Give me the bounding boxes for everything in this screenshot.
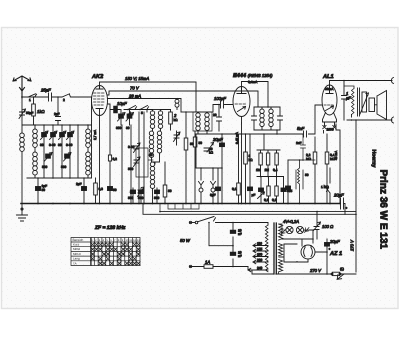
wire 270V bottom — [252, 268, 356, 275]
svg-text:2: 2 — [63, 98, 65, 102]
transformer tap 110 — [253, 242, 268, 248]
capacitor 50 x110 — [108, 187, 117, 193]
tube AL1 base — [323, 113, 337, 132]
svg-text:nF: nF — [238, 254, 242, 258]
trimmer C10 — [116, 110, 125, 131]
transformer secondary top — [279, 224, 283, 240]
svg-text:nF: nF — [238, 232, 242, 236]
svg-text:28 mA: 28 mA — [128, 94, 141, 99]
table waveband grid — [71, 238, 140, 266]
svg-text:5: 5 — [291, 189, 293, 193]
rectifier AZ1 — [301, 245, 315, 262]
wire L3 tops — [153, 109, 161, 111]
wire AK2 cathode down — [93, 116, 100, 204]
capacitor 500c — [154, 188, 160, 204]
fuse 1A — [189, 260, 248, 269]
capacitor 500b — [138, 188, 144, 204]
svg-text:2µF: 2µF — [76, 182, 82, 186]
trimmer C3 — [40, 125, 48, 178]
capacitor C20 — [248, 134, 256, 204]
coil T1a — [196, 112, 200, 131]
connector top — [391, 78, 393, 84]
svg-text:0,4: 0,4 — [273, 168, 278, 172]
capacitor 1uF — [342, 81, 352, 121]
potentiometer 10k — [196, 134, 214, 168]
coil L4b — [157, 131, 161, 162]
svg-text:ZF = 128 kHz: ZF = 128 kHz — [94, 225, 126, 231]
svg-text:5nF: 5nF — [297, 126, 305, 131]
svg-text:500: 500 — [138, 196, 144, 200]
wire lamps to heater — [310, 230, 314, 243]
svg-text:kΩ: kΩ — [209, 151, 214, 155]
wire E444 cathode — [235, 123, 242, 204]
wire AL1 anode — [330, 80, 393, 86]
wire y150 avc — [257, 133, 280, 150]
svg-text:3-30: 3-30 — [66, 143, 73, 147]
svg-text:10µF: 10µF — [117, 101, 127, 106]
resistor 50b — [193, 131, 202, 204]
resistor R8 — [232, 134, 240, 204]
resistor 1k — [32, 97, 46, 125]
capacitor 2uF top — [54, 97, 61, 125]
svg-text:500: 500 — [61, 165, 67, 169]
coil L5 — [150, 162, 154, 204]
svg-text:100µF: 100µF — [214, 96, 226, 101]
svg-text:300: 300 — [116, 126, 122, 130]
svg-text:110: 110 — [257, 242, 262, 246]
wire y168 — [196, 167, 223, 169]
coil antenna — [20, 133, 25, 151]
trimmer C5 — [58, 125, 66, 178]
IF transformer T1 top bar — [193, 111, 212, 113]
svg-text:Bereich: Bereich — [73, 238, 84, 242]
wire E444 anode top — [242, 82, 269, 108]
svg-text:3-30: 3-30 — [49, 143, 56, 147]
tube E444 — [233, 73, 273, 123]
wire AL1 cathode down — [334, 124, 340, 204]
transformer tap 240 — [248, 266, 268, 272]
wire grid E444 — [213, 104, 233, 112]
svg-text:240: 240 — [257, 266, 263, 270]
capacitor 10nF b — [230, 251, 241, 259]
svg-text:+: + — [346, 206, 348, 210]
output transformer winding — [344, 86, 354, 117]
svg-text:µF: µF — [346, 96, 351, 101]
coil L1a — [33, 125, 38, 152]
coil L3a — [150, 110, 154, 132]
wire T1 down — [198, 131, 207, 134]
wire x78 — [77, 125, 79, 178]
trimmer C13 — [128, 143, 140, 153]
svg-text:AZ 1: AZ 1 — [329, 251, 342, 257]
wire mains top vert — [232, 222, 234, 268]
wire antenna horizontal — [21, 95, 91, 98]
svg-text:TA: TA — [73, 261, 77, 265]
capacitor 10nF a — [230, 229, 241, 237]
trimmer C4 — [49, 125, 57, 178]
svg-text:50: 50 — [199, 141, 203, 145]
resistor 0,4M — [273, 150, 278, 177]
wire speaker bottom — [347, 119, 392, 121]
svg-text:30: 30 — [58, 143, 62, 147]
svg-text:20µF: 20µF — [212, 137, 223, 142]
svg-text:0,4mA: 0,4mA — [248, 80, 258, 84]
transformer tap 150 — [253, 253, 268, 259]
svg-text:25µF: 25µF — [40, 88, 51, 93]
mains switch — [195, 217, 233, 224]
IF T2 bottom bar — [254, 129, 280, 134]
transformer secondary mid — [279, 244, 283, 256]
svg-text:2µF: 2µF — [54, 112, 60, 116]
sub bus y213.5 — [143, 204, 357, 216]
coil L3b — [158, 110, 162, 132]
capacitor 8uF — [210, 168, 221, 204]
wire cap midpoint — [208, 222, 234, 247]
output transformer core — [358, 88, 360, 116]
svg-text:20µF: 20µF — [333, 193, 344, 198]
svg-text:1: 1 — [29, 98, 31, 102]
coil L2b — [86, 152, 91, 178]
resistor 50 — [184, 112, 194, 204]
capacitor 5nF — [297, 126, 307, 137]
svg-text:50: 50 — [130, 190, 134, 194]
capacitor C22 — [258, 177, 265, 204]
wire AZ1 loop — [279, 244, 327, 262]
trimmer C14 — [128, 157, 140, 171]
ground symbol — [17, 204, 28, 222]
rail 28mA — [108, 94, 182, 113]
capacitor T2 left — [252, 107, 257, 130]
coil L1b — [33, 152, 38, 178]
trimmer C8 — [61, 153, 71, 170]
svg-text:45 mA: 45 mA — [334, 150, 338, 160]
capacitor 10uF — [114, 101, 127, 113]
resistor 2,2M — [306, 150, 317, 204]
wire y176.5 — [257, 176, 284, 178]
label AZ1 — [329, 251, 342, 257]
connector bottom — [391, 117, 393, 123]
wire AZ1 anodes — [282, 238, 314, 246]
svg-text:70 V: 70 V — [130, 86, 140, 91]
svg-text:Mittel: Mittel — [73, 247, 81, 251]
label Prinz 36 W E 131 — [378, 170, 389, 250]
capacitor T2 right — [278, 107, 283, 130]
svg-text:1nF: 1nF — [296, 141, 302, 145]
svg-text:270 V: 270 V — [309, 268, 322, 273]
svg-text:500: 500 — [42, 165, 48, 169]
resistor 2k — [169, 110, 178, 131]
coil T2a — [260, 107, 264, 130]
resistor 0,2 x110 — [108, 110, 117, 204]
switch S1 — [28, 94, 37, 102]
capacitor 20uF AZ1 — [325, 239, 341, 272]
jack TA1 — [199, 168, 204, 204]
resistor R12 — [264, 177, 270, 204]
switch S4 — [140, 106, 149, 116]
transformer secondary bottom — [279, 260, 283, 275]
svg-text:50: 50 — [168, 189, 172, 193]
wire y134 coupling — [196, 105, 322, 135]
resistor 1M — [256, 150, 262, 177]
label 50W — [180, 238, 191, 243]
IF T1 bottom bar — [193, 112, 212, 131]
svg-text:0,2: 0,2 — [264, 198, 269, 202]
svg-text:1 MΩ: 1 MΩ — [321, 185, 329, 189]
transformer tap 220 — [253, 258, 268, 264]
fuse F2 — [331, 267, 344, 280]
switch WK — [321, 168, 330, 204]
svg-text:50: 50 — [42, 188, 46, 192]
transformer primary top wire — [233, 223, 268, 226]
wire y160 link — [288, 159, 304, 161]
svg-text:1M: 1M — [256, 168, 261, 172]
capacitor 50pF — [19, 109, 33, 119]
svg-text:1kΩ: 1kΩ — [37, 109, 45, 114]
transformer core — [274, 223, 276, 274]
resistor field — [296, 160, 309, 204]
table row labels — [73, 243, 82, 266]
wire AK2 right y109.5 — [108, 104, 153, 110]
svg-text:Hoerny: Hoerny — [371, 150, 377, 168]
svg-text:1A: 1A — [205, 260, 210, 265]
capacitor C23 — [281, 177, 291, 204]
rail 150V — [100, 76, 197, 112]
svg-text:2M: 2M — [265, 168, 270, 172]
capacitor 5nF grid — [314, 137, 316, 150]
capacitor 20pF — [213, 105, 222, 132]
svg-text:kΩ: kΩ — [174, 118, 179, 122]
label Hoerny — [371, 150, 377, 168]
svg-text:µF: µF — [252, 193, 256, 197]
wire y112 osc top — [181, 111, 196, 113]
trimmer C12 — [174, 131, 181, 145]
svg-text:Mitt.m: Mitt.m — [73, 252, 82, 256]
ground bus — [21, 203, 341, 205]
svg-text:100 Ω: 100 Ω — [322, 224, 334, 229]
coil T2b — [269, 107, 273, 130]
svg-text:50: 50 — [113, 188, 117, 192]
switch S3 — [128, 106, 137, 116]
coil T1b — [205, 112, 209, 131]
label ZF caption — [94, 225, 126, 231]
svg-text:3-30: 3-30 — [128, 145, 135, 149]
jack TA2 — [211, 168, 216, 204]
svg-text:AK2: AK2 — [91, 74, 104, 80]
sub bar y209 — [168, 204, 199, 210]
transformer TR1 primary — [265, 225, 268, 272]
capacitor 50 bottom — [36, 178, 48, 204]
svg-text:500: 500 — [154, 196, 160, 200]
resistor R5 — [163, 162, 172, 204]
lamp LP1 — [286, 226, 293, 233]
wire x222 down — [221, 168, 223, 204]
svg-text:MΩ: MΩ — [306, 157, 312, 161]
svg-text:1µF: 1µF — [42, 184, 48, 188]
svg-text:20µF: 20µF — [329, 239, 340, 244]
tube AL1 — [322, 74, 337, 115]
capacitor 2uF bottom — [76, 178, 87, 204]
svg-text:0,1: 0,1 — [232, 187, 237, 191]
capacitor 25uF — [40, 88, 52, 102]
svg-text:0,2: 0,2 — [272, 198, 277, 202]
svg-text:50 W: 50 W — [180, 238, 191, 243]
svg-text:150 V; 15mA: 150 V; 15mA — [125, 76, 149, 81]
svg-text:4V≈0,2A: 4V≈0,2A — [283, 219, 299, 224]
wire antenna down — [21, 85, 23, 204]
resistor 0,4M — [325, 134, 335, 204]
trimmer C11 — [126, 110, 134, 131]
capacitor 20uF mid — [212, 134, 225, 168]
capacitor 500a — [128, 188, 136, 204]
capacitor 100pF — [214, 96, 226, 108]
resistor 30k — [244, 134, 253, 204]
resistor 0,3M — [94, 178, 103, 204]
wire horizontal y125 — [22, 124, 92, 126]
wire osc mid — [144, 110, 171, 204]
resistor R13 — [272, 177, 278, 204]
svg-text:270 V: 270 V — [350, 239, 355, 252]
resistor 2M — [265, 150, 270, 177]
wire heater AL1 — [316, 131, 323, 240]
svg-text:30: 30 — [40, 143, 44, 147]
svg-text:20: 20 — [213, 113, 217, 117]
svg-text:Lang: Lang — [73, 257, 80, 261]
rail 70V — [108, 86, 259, 108]
svg-text:125: 125 — [257, 247, 263, 251]
speaker matching winding — [360, 92, 369, 114]
potentiometer 100 — [314, 222, 335, 231]
IF transformer T2 top bar — [254, 106, 280, 108]
coil L6 — [175, 99, 179, 110]
wire stub coil bottoms — [27, 97, 92, 178]
svg-text:0,2: 0,2 — [113, 157, 118, 161]
wire horizontal y178 — [27, 177, 92, 179]
table header labels — [73, 238, 141, 242]
coil L2a — [86, 125, 91, 152]
svg-text:8µF: 8µF — [210, 193, 216, 197]
transformer tap 125 — [253, 247, 268, 253]
label 270V vertical — [350, 239, 355, 252]
capacitor 1nF — [296, 134, 315, 160]
speaker — [369, 91, 387, 120]
lamp arrows — [281, 224, 310, 235]
svg-text:2,7 mA: 2,7 mA — [93, 129, 97, 140]
lamp LP2 — [296, 226, 303, 233]
svg-text:50: 50 — [305, 173, 309, 177]
label 4V — [283, 219, 299, 224]
svg-text:500: 500 — [128, 196, 134, 200]
svg-text:500: 500 — [128, 167, 134, 171]
capacitor 20uF bus — [333, 193, 348, 215]
wire HT down right — [355, 120, 357, 272]
coil L4a — [149, 131, 153, 162]
svg-text:AL1: AL1 — [322, 74, 334, 80]
svg-text:220: 220 — [257, 258, 263, 262]
svg-text:Kurz: Kurz — [73, 243, 80, 247]
antenna — [13, 76, 31, 98]
svg-text:30: 30 — [126, 126, 130, 130]
svg-text:(1): (1) — [340, 267, 344, 271]
padder network box — [136, 148, 153, 177]
svg-text:1000: 1000 — [327, 128, 334, 132]
tube AK2 — [91, 74, 108, 116]
wire mains left — [189, 221, 195, 223]
table X marks — [91, 243, 140, 265]
wire mid block verticals — [122, 112, 139, 204]
svg-text:50pF: 50pF — [26, 111, 33, 115]
svg-text:kΩ: kΩ — [249, 158, 254, 162]
svg-text:5: 5 — [141, 111, 143, 115]
trimmer C6 — [66, 125, 74, 178]
switch S2 — [62, 94, 70, 102]
trimmer padder — [130, 187, 144, 197]
svg-text:Prinz 36 W E 131: Prinz 36 W E 131 — [378, 170, 389, 250]
svg-text:150: 150 — [257, 253, 263, 257]
svg-text:30: 30 — [149, 153, 153, 157]
capacitor C30 — [286, 160, 293, 204]
trimmer C7 — [42, 153, 52, 170]
